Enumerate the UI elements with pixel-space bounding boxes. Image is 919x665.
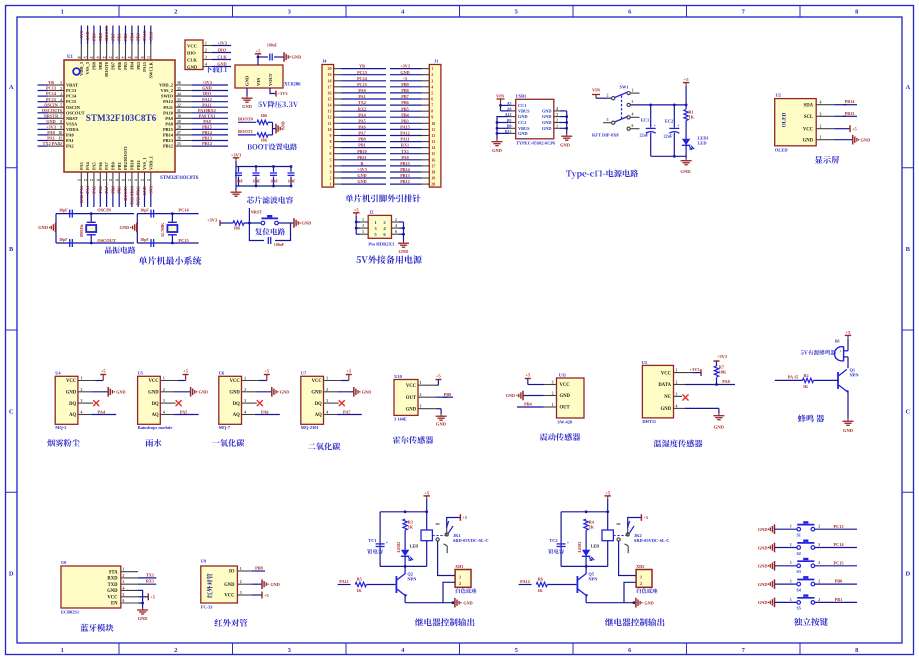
svg-text:PC13: PC13 bbox=[833, 524, 843, 529]
svg-text:1: 1 bbox=[326, 377, 328, 381]
svg-text:PB13: PB13 bbox=[202, 136, 212, 141]
svg-text:PB7: PB7 bbox=[110, 32, 115, 40]
svg-text:+3V3: +3V3 bbox=[690, 367, 700, 372]
ground GND bbox=[271, 387, 273, 397]
svg-text:3: 3 bbox=[205, 56, 207, 60]
svg-text:GND: GND bbox=[506, 393, 515, 398]
svg-text:PA5: PA5 bbox=[358, 118, 365, 123]
resistor 10K upper bbox=[257, 120, 268, 124]
svg-text:PA10RX1: PA10RX1 bbox=[198, 108, 216, 113]
svg-text:3: 3 bbox=[81, 399, 83, 403]
svg-text:6: 6 bbox=[395, 230, 397, 234]
svg-text:3 144E: 3 144E bbox=[394, 417, 407, 422]
svg-text:CLK: CLK bbox=[148, 31, 153, 41]
ground GND bbox=[291, 222, 295, 224]
svg-text:OSCIN: OSCIN bbox=[66, 105, 81, 110]
svg-text:+5: +5 bbox=[852, 126, 858, 131]
capacitor 100nF bbox=[267, 237, 269, 244]
svg-text:GND: GND bbox=[400, 70, 409, 75]
svg-text:GND: GND bbox=[224, 583, 235, 588]
svg-text:GND: GND bbox=[758, 545, 768, 550]
svg-text:BOOT0: BOOT0 bbox=[238, 117, 254, 122]
wire bus top bbox=[235, 161, 237, 167]
svg-text:16: 16 bbox=[328, 90, 332, 95]
svg-text:GND: GND bbox=[758, 582, 768, 587]
svg-text:GND: GND bbox=[202, 86, 212, 91]
svg-text:30pF: 30pF bbox=[59, 238, 68, 242]
U9 pin 2 GND bbox=[252, 583, 262, 585]
svg-text:PB13: PB13 bbox=[163, 138, 174, 143]
svg-text:EC1: EC1 bbox=[641, 118, 649, 123]
svg-text:30: 30 bbox=[177, 115, 181, 119]
label 钽电容 bbox=[548, 549, 564, 554]
resistor R3 1K bbox=[403, 519, 407, 530]
svg-text:12: 12 bbox=[431, 133, 435, 138]
title 复位电路 bbox=[255, 228, 285, 235]
U10 pin 3 GND bbox=[437, 408, 442, 410]
svg-text:3: 3 bbox=[820, 112, 822, 116]
svg-text:A: A bbox=[905, 84, 910, 91]
power +5 contact bbox=[628, 518, 642, 529]
svg-text:VDDA: VDDA bbox=[66, 127, 80, 132]
power +3V3 bbox=[700, 369, 702, 376]
mcu pin 4 PC15 bbox=[48, 101, 64, 103]
svg-text:TX2: TX2 bbox=[358, 100, 366, 105]
svg-text:+3V3: +3V3 bbox=[278, 91, 289, 96]
svg-text:PB15: PB15 bbox=[163, 127, 174, 132]
capacitor 100nF #1 bbox=[238, 167, 240, 172]
svg-text:GND: GND bbox=[758, 527, 768, 532]
wire right net PC14 bbox=[815, 547, 857, 549]
svg-text:NPN: NPN bbox=[850, 373, 860, 378]
svg-text:PB12: PB12 bbox=[163, 144, 173, 149]
svg-text:PA6: PA6 bbox=[98, 185, 103, 193]
svg-text:GND: GND bbox=[518, 114, 528, 119]
svg-text:5: 5 bbox=[60, 103, 62, 107]
svg-text:7: 7 bbox=[330, 145, 332, 150]
title 震动传感器 bbox=[540, 433, 581, 441]
svg-text:PB15: PB15 bbox=[202, 125, 212, 130]
power +3V3 out bbox=[270, 88, 276, 94]
svg-text:PA11: PA11 bbox=[202, 102, 211, 107]
U4 pin 1 VCC to +5 bbox=[78, 380, 95, 382]
led LED3 bbox=[585, 530, 587, 550]
svg-text:U5: U5 bbox=[138, 371, 144, 376]
svg-text:+3V3: +3V3 bbox=[357, 167, 367, 172]
svg-text:RX3 PB11: RX3 PB11 bbox=[136, 186, 141, 205]
J2 right pins 2,4,6 bbox=[403, 222, 405, 241]
svg-text:PA2: PA2 bbox=[66, 144, 74, 149]
title 霍尔传感器 bbox=[393, 436, 434, 444]
svg-text:PA1: PA1 bbox=[47, 136, 55, 141]
capacitor 100nF #4 bbox=[290, 167, 292, 172]
svg-text:YB: YB bbox=[359, 64, 365, 69]
title 雨水 bbox=[146, 439, 162, 447]
svg-text:VSS_2: VSS_2 bbox=[161, 88, 173, 93]
svg-text:3: 3 bbox=[60, 92, 62, 96]
svg-text:35: 35 bbox=[177, 87, 181, 91]
svg-text:PB8: PB8 bbox=[255, 566, 263, 571]
svg-text:+3V3: +3V3 bbox=[148, 186, 153, 196]
svg-text:4: 4 bbox=[395, 224, 397, 228]
svg-text:14: 14 bbox=[84, 178, 88, 182]
svg-text:OUT: OUT bbox=[406, 396, 417, 401]
svg-text:22uF: 22uF bbox=[639, 133, 649, 138]
svg-text:1: 1 bbox=[60, 81, 62, 85]
svg-text:GND: GND bbox=[148, 391, 159, 396]
svg-text:6: 6 bbox=[60, 109, 62, 113]
svg-text:PB4: PB4 bbox=[401, 112, 409, 117]
svg-text:PB5: PB5 bbox=[401, 106, 408, 111]
svg-text:+5: +5 bbox=[605, 491, 611, 496]
J2 left pins 1,3,5 bbox=[355, 216, 357, 234]
svg-text:VSS_3: VSS_3 bbox=[85, 61, 90, 74]
wire joining bbox=[272, 122, 274, 135]
title 温湿度传感器 bbox=[654, 440, 703, 448]
svg-text:PB15: PB15 bbox=[400, 161, 410, 166]
svg-text:2: 2 bbox=[163, 388, 165, 392]
svg-text:AQ: AQ bbox=[69, 413, 76, 418]
svg-text:RX1: RX1 bbox=[146, 579, 154, 584]
svg-text:USB1: USB1 bbox=[516, 94, 527, 99]
svg-text:PC13: PC13 bbox=[66, 88, 77, 93]
label 白色底座 bbox=[456, 588, 477, 593]
led LED1 bbox=[682, 139, 690, 146]
net label NRST bbox=[248, 208, 250, 223]
svg-text:6: 6 bbox=[632, 124, 634, 128]
ground GND right bbox=[283, 52, 285, 62]
mcu pin 33 PA12 bbox=[175, 101, 192, 103]
mcu pin 19 PB1 bbox=[118, 172, 120, 188]
svg-text:30pF: 30pF bbox=[140, 208, 149, 212]
svg-text:1: 1 bbox=[244, 377, 246, 381]
svg-text:2: 2 bbox=[552, 392, 554, 396]
svg-text:8: 8 bbox=[330, 139, 332, 144]
svg-text:1K: 1K bbox=[803, 384, 809, 389]
svg-text:104F: 104F bbox=[253, 179, 261, 183]
svg-text:DHT11: DHT11 bbox=[642, 419, 656, 424]
button S1 bbox=[797, 527, 801, 531]
svg-text:U3: U3 bbox=[642, 360, 648, 365]
svg-text:1: 1 bbox=[163, 377, 165, 381]
wire bottom bus bbox=[380, 565, 427, 567]
capacitor EC2 22uF bbox=[673, 105, 675, 128]
ground GND bbox=[440, 414, 442, 416]
wire bbox=[238, 134, 256, 136]
svg-text:GND: GND bbox=[302, 221, 312, 226]
svg-text:9: 9 bbox=[330, 133, 332, 138]
svg-text:16: 16 bbox=[431, 157, 435, 162]
svg-text:2: 2 bbox=[244, 388, 246, 392]
svg-text:XH2: XH2 bbox=[636, 564, 644, 569]
svg-text:+5: +5 bbox=[264, 593, 270, 598]
svg-text:PA7: PA7 bbox=[104, 161, 109, 170]
power +5 bbox=[355, 213, 357, 216]
svg-text:NRST: NRST bbox=[251, 210, 263, 215]
svg-text:11: 11 bbox=[328, 121, 332, 126]
mcu pin 44 BOOT0 bbox=[106, 44, 108, 60]
title 独立按键 bbox=[794, 618, 828, 626]
mcu pin 8 VSSA bbox=[48, 123, 64, 125]
ground GND bbox=[55, 223, 57, 233]
svg-text:PB14: PB14 bbox=[845, 99, 856, 104]
svg-text:8: 8 bbox=[431, 109, 433, 114]
svg-text:4: 4 bbox=[60, 98, 62, 102]
svg-text:4: 4 bbox=[205, 63, 207, 67]
svg-text:U11: U11 bbox=[559, 372, 566, 377]
svg-text:+5: +5 bbox=[183, 369, 189, 374]
title 二氧化碳 bbox=[308, 443, 340, 451]
mcu pin 12 PA2 bbox=[48, 145, 64, 147]
svg-text:GND: GND bbox=[245, 75, 250, 86]
svg-text:36: 36 bbox=[177, 81, 181, 85]
svg-text:GND: GND bbox=[758, 600, 768, 605]
svg-text:GND: GND bbox=[138, 616, 148, 621]
svg-text:NC: NC bbox=[664, 395, 671, 400]
capacitor 30pF bottom bbox=[150, 239, 152, 247]
svg-text:VCC: VCC bbox=[230, 379, 241, 384]
svg-text:40: 40 bbox=[128, 55, 132, 59]
mcu pin 46 PB9 bbox=[93, 44, 95, 60]
mcu pin 21 PB10 bbox=[131, 172, 133, 188]
svg-text:GND: GND bbox=[714, 425, 725, 430]
ground GND bbox=[774, 598, 776, 608]
svg-text:PA11: PA11 bbox=[339, 579, 348, 584]
svg-text:NRSTR: NRSTR bbox=[44, 113, 59, 118]
mcu pin 32 PA11 bbox=[175, 106, 192, 108]
svg-text:+5: +5 bbox=[462, 515, 468, 520]
svg-text:ECB02S1: ECB02S1 bbox=[61, 610, 79, 615]
ground GND bbox=[635, 598, 637, 608]
svg-text:33: 33 bbox=[177, 98, 181, 102]
svg-text:STA: STA bbox=[109, 570, 118, 575]
svg-text:CLK: CLK bbox=[217, 55, 227, 60]
svg-text:10: 10 bbox=[328, 127, 332, 132]
svg-text:CC2: CC2 bbox=[518, 120, 526, 125]
ground GND bbox=[403, 241, 405, 243]
svg-text:DIO: DIO bbox=[218, 48, 227, 53]
svg-text:PA12: PA12 bbox=[520, 579, 530, 584]
svg-text:2: 2 bbox=[607, 94, 609, 98]
svg-text:25: 25 bbox=[177, 142, 181, 146]
U9 vertical label 红外对管 bbox=[207, 573, 213, 597]
mcu pin 16 PA6 bbox=[99, 172, 101, 188]
capacitor 30pF top bbox=[69, 210, 71, 218]
svg-text:VBAT: VBAT bbox=[66, 83, 78, 88]
svg-text:PA11: PA11 bbox=[400, 137, 409, 142]
wire SCL net PB15 bbox=[835, 115, 847, 117]
wire left bbox=[775, 583, 797, 585]
svg-text:2: 2 bbox=[60, 87, 62, 91]
svg-text:RX1: RX1 bbox=[401, 143, 409, 148]
svg-text:GND: GND bbox=[85, 31, 90, 41]
U3 pin 3 NC no-connect bbox=[674, 395, 683, 397]
title 红外对管 bbox=[215, 619, 248, 627]
svg-text:NPN: NPN bbox=[407, 577, 417, 582]
svg-text:SW1: SW1 bbox=[620, 85, 629, 90]
svg-text:PB9: PB9 bbox=[444, 392, 452, 397]
svg-text:4: 4 bbox=[244, 411, 246, 415]
svg-text:J1: J1 bbox=[434, 59, 438, 64]
svg-text:10K: 10K bbox=[261, 114, 268, 118]
U7 pin 3 DQ no-connect bbox=[324, 402, 339, 404]
power +5 bbox=[100, 374, 106, 376]
svg-text:PA7: PA7 bbox=[343, 409, 351, 414]
svg-text:10: 10 bbox=[58, 131, 62, 135]
mcu pin 10 PA0 bbox=[48, 134, 64, 136]
mcu U1 STM32F103C8T6 body bbox=[64, 60, 175, 172]
svg-text:IO: IO bbox=[229, 570, 235, 575]
svg-text:2: 2 bbox=[818, 580, 820, 584]
mcu pin 11 PA1 bbox=[48, 140, 64, 142]
title 晶振电路 bbox=[105, 246, 136, 253]
svg-text:C: C bbox=[9, 408, 14, 415]
svg-text:PB15: PB15 bbox=[845, 111, 855, 116]
svg-text:4: 4 bbox=[330, 163, 332, 168]
wire bottom bus bbox=[561, 565, 608, 567]
svg-text:GND: GND bbox=[542, 126, 552, 131]
svg-text:MQ-7: MQ-7 bbox=[219, 425, 231, 430]
svg-text:U9: U9 bbox=[201, 559, 207, 564]
mcu pin 22 PB11 bbox=[137, 172, 139, 188]
wire right net PB0 bbox=[815, 583, 857, 585]
transistor Q1 NPN bbox=[837, 372, 839, 389]
svg-text:PA6: PA6 bbox=[261, 409, 269, 414]
mcu pin 24 VDD_1 bbox=[150, 172, 152, 188]
svg-text:+3V3: +3V3 bbox=[400, 64, 410, 69]
svg-text:PB8: PB8 bbox=[98, 33, 103, 41]
svg-text:+5: +5 bbox=[354, 207, 360, 212]
U4 pin 2 GND bbox=[78, 391, 91, 393]
ground GND bbox=[774, 543, 776, 553]
svg-text:PA9: PA9 bbox=[165, 116, 174, 121]
svg-text:VCC: VCC bbox=[560, 383, 571, 388]
ground GND bottom left bbox=[496, 133, 498, 139]
svg-text:OSCIN: OSCIN bbox=[44, 102, 59, 107]
svg-text:PB14: PB14 bbox=[202, 130, 213, 135]
wire right net PC15 bbox=[815, 565, 857, 567]
svg-text:GND: GND bbox=[362, 389, 371, 394]
svg-text:PB9: PB9 bbox=[401, 82, 408, 87]
svg-text:DQ: DQ bbox=[233, 402, 240, 407]
svg-text:GND: GND bbox=[843, 428, 854, 433]
resistor R6 1K bbox=[536, 582, 547, 586]
svg-text:+5: +5 bbox=[101, 369, 107, 374]
svg-text:+: + bbox=[386, 540, 389, 545]
U6 pin 3 DQ no-connect bbox=[242, 402, 257, 404]
title 5V降压3.3V bbox=[258, 101, 298, 108]
relay contacts JK2 bbox=[613, 535, 626, 537]
svg-text:100nF: 100nF bbox=[274, 243, 285, 247]
ground GND bbox=[353, 387, 355, 397]
resistor R4 1K bbox=[584, 519, 588, 530]
svg-text:4: 4 bbox=[632, 113, 634, 117]
svg-text:TX3 PB10: TX3 PB10 bbox=[129, 186, 134, 205]
svg-text:1: 1 bbox=[676, 369, 678, 373]
U6 pin 4 AQ net PA6 bbox=[242, 414, 255, 416]
svg-text:10K: 10K bbox=[719, 369, 727, 374]
svg-text:2: 2 bbox=[818, 598, 820, 602]
svg-text:1: 1 bbox=[205, 42, 207, 46]
svg-text:12: 12 bbox=[328, 115, 332, 120]
crystal 8M1Hz bbox=[90, 214, 92, 223]
svg-text:+3V3: +3V3 bbox=[231, 152, 242, 157]
svg-text:RX2 PA3: RX2 PA3 bbox=[79, 186, 84, 203]
svg-text:1: 1 bbox=[790, 543, 792, 547]
mcu pin 6 OSCOUT bbox=[48, 112, 64, 114]
svg-text:TXD: TXD bbox=[108, 583, 119, 588]
svg-text:SDA: SDA bbox=[804, 103, 814, 108]
svg-text:PC13: PC13 bbox=[46, 86, 56, 91]
svg-text:S2: S2 bbox=[796, 551, 800, 556]
svg-text:4: 4 bbox=[81, 411, 83, 415]
power +5 bbox=[435, 379, 441, 381]
svg-text:DIO: DIO bbox=[203, 91, 212, 96]
svg-text:47: 47 bbox=[84, 55, 88, 59]
mcu pin 23 VSS_1 bbox=[144, 172, 146, 188]
capacitor 30pF bottom bbox=[69, 239, 71, 247]
svg-text:B1: B1 bbox=[835, 339, 840, 344]
svg-text:VCC: VCC bbox=[148, 379, 159, 384]
svg-text:PB14: PB14 bbox=[163, 133, 174, 138]
svg-text:PB8: PB8 bbox=[98, 61, 103, 70]
svg-text:+5: +5 bbox=[525, 372, 531, 377]
svg-text:RXD: RXD bbox=[107, 577, 118, 582]
power +3V3 bbox=[235, 158, 237, 161]
svg-text:2: 2 bbox=[820, 125, 822, 129]
svg-text:5: 5 bbox=[123, 593, 125, 597]
svg-text:3: 3 bbox=[556, 113, 558, 117]
U5 pin 4 AQ net PA5 bbox=[160, 414, 173, 416]
U11 pin 1 OUT net PB4 bbox=[517, 406, 544, 408]
svg-text:SWIO: SWIO bbox=[161, 94, 174, 99]
svg-text:GND: GND bbox=[107, 589, 118, 594]
wire collector bbox=[404, 566, 406, 573]
svg-text:OSCOUT: OSCOUT bbox=[66, 110, 85, 115]
svg-text:20: 20 bbox=[431, 182, 435, 187]
svg-text:GND: GND bbox=[542, 109, 552, 114]
svg-text:+5: +5 bbox=[264, 369, 270, 374]
svg-text:17: 17 bbox=[103, 178, 107, 182]
label 白色底座 bbox=[637, 588, 658, 593]
svg-text:5: 5 bbox=[431, 90, 433, 95]
svg-text:PA1: PA1 bbox=[358, 94, 365, 99]
svg-text:28: 28 bbox=[177, 126, 181, 130]
svg-text:U4: U4 bbox=[55, 371, 61, 376]
wire crystal left rail bbox=[55, 214, 57, 243]
mcu pin 25 PB12 bbox=[175, 145, 192, 147]
svg-text:22uF: 22uF bbox=[663, 134, 673, 139]
svg-text:PA8: PA8 bbox=[203, 119, 211, 124]
button S4 bbox=[797, 582, 801, 586]
power +5 bbox=[183, 374, 189, 376]
svg-text:MQ-2301: MQ-2301 bbox=[301, 425, 319, 430]
ground GND bbox=[261, 579, 263, 589]
svg-text:B: B bbox=[906, 246, 911, 253]
button S3 bbox=[797, 564, 801, 568]
wire VIN to pins bbox=[501, 104, 509, 106]
svg-text:DATA: DATA bbox=[658, 383, 671, 388]
title 显示屏 bbox=[815, 156, 840, 164]
power +5 on VCC bbox=[835, 128, 851, 130]
ground GND bbox=[774, 561, 776, 571]
mcu pin 35 VSS_2 bbox=[175, 90, 192, 92]
svg-text:PA0: PA0 bbox=[47, 130, 55, 135]
wire contact to XH pin1 bbox=[619, 541, 637, 575]
U4 pin 3 DQ no-connect bbox=[78, 402, 93, 404]
svg-text:GND: GND bbox=[292, 55, 302, 60]
svg-text:VDD_1: VDD_1 bbox=[148, 156, 153, 170]
